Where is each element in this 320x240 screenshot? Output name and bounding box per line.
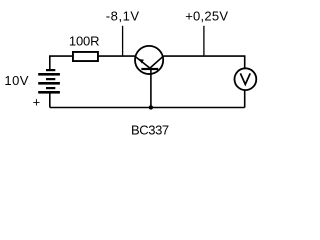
svg-text:BC337: BC337: [131, 122, 169, 137]
svg-text:10V: 10V: [4, 73, 28, 88]
wire resistor to transistor: [98, 55, 134, 57]
svg-text:-8,1V: -8,1V: [106, 8, 140, 23]
wire voltmeter bottom: [244, 90, 246, 107]
svg-text:+: +: [33, 95, 41, 110]
voltmeter M1 letter V: [240, 73, 250, 84]
wire transistor to voltmeter: [163, 56, 244, 68]
voltmeter M1 circle: [235, 68, 257, 90]
resistor R1 100R: [73, 52, 98, 61]
wire battery top to resistor: [50, 56, 73, 69]
pointer line -8,1V: [122, 26, 124, 56]
svg-text:100R: 100R: [69, 33, 99, 48]
transistor Q1 base bar: [141, 68, 158, 70]
transistor Q1 base lead: [150, 69, 152, 108]
transistor Q1 collector line: [150, 56, 163, 68]
transistor Q1 circle: [135, 46, 163, 74]
junction dot: [149, 105, 153, 109]
transistor Q1 emitter arrow: [139, 59, 144, 63]
transistor Q1 emitter line: [135, 56, 150, 68]
wire bottom rail: [50, 107, 245, 109]
pointer line +0,25V: [203, 26, 205, 56]
wire battery bottom: [49, 93, 51, 107]
battery B1 10V: [38, 69, 60, 94]
svg-text:+0,25V: +0,25V: [185, 8, 228, 23]
